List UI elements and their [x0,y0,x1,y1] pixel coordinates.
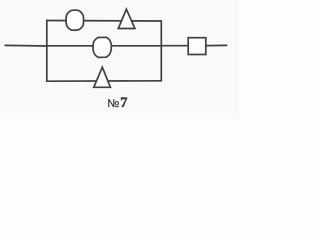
wire to output block [161,45,188,47]
element octagon middle branch [93,37,111,57]
wire top branch [47,20,162,23]
wire input left [5,44,48,47]
svg-text:№7: №7 [107,95,128,111]
element rectangle output [188,38,206,55]
wire left vertical junction [46,20,48,82]
wire middle branch [47,45,162,47]
element triangle top branch [118,9,135,28]
element triangle bottom branch [94,67,111,87]
wire output right [206,44,227,46]
wire right vertical junction [160,20,162,81]
element circle top branch [66,10,84,30]
wire bottom branch [47,80,162,82]
